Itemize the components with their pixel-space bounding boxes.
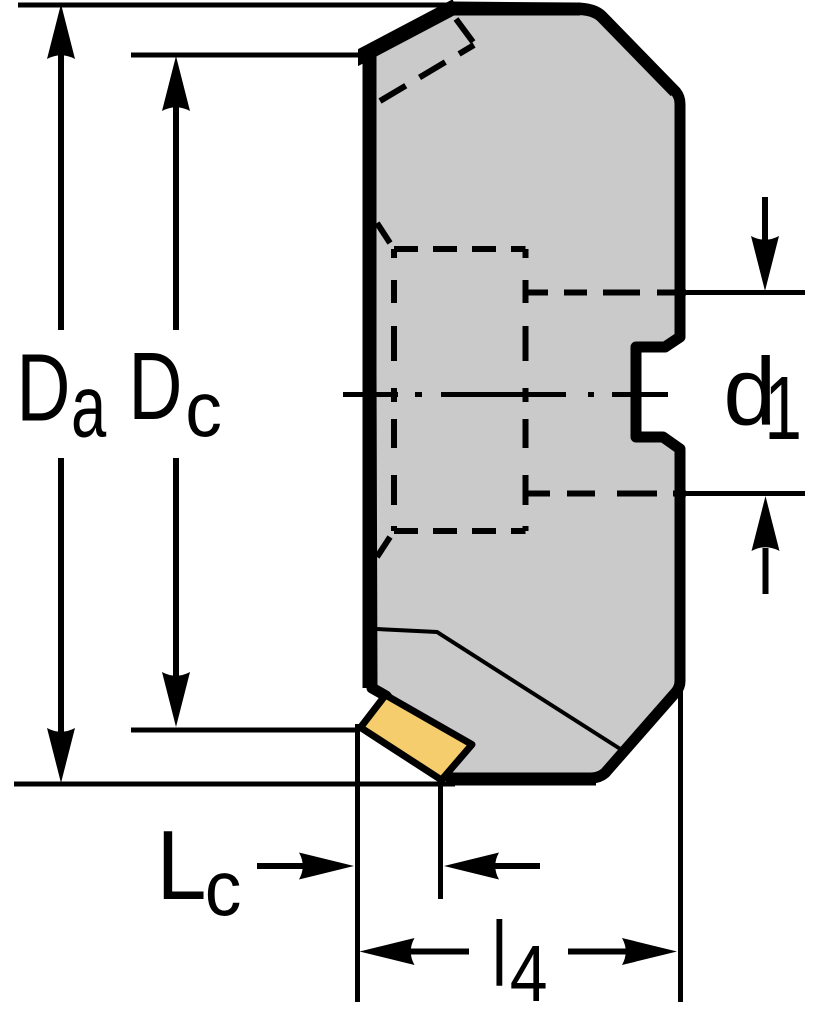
svg-text:L: L bbox=[156, 811, 206, 920]
svg-text:c: c bbox=[185, 366, 222, 454]
svg-text:1: 1 bbox=[764, 358, 802, 459]
svg-text:a: a bbox=[71, 358, 107, 456]
svg-text:4: 4 bbox=[510, 929, 548, 1018]
svg-text:l: l bbox=[492, 902, 507, 1005]
svg-text:D: D bbox=[128, 333, 182, 440]
svg-text:D: D bbox=[16, 335, 70, 442]
svg-text:c: c bbox=[205, 845, 242, 933]
